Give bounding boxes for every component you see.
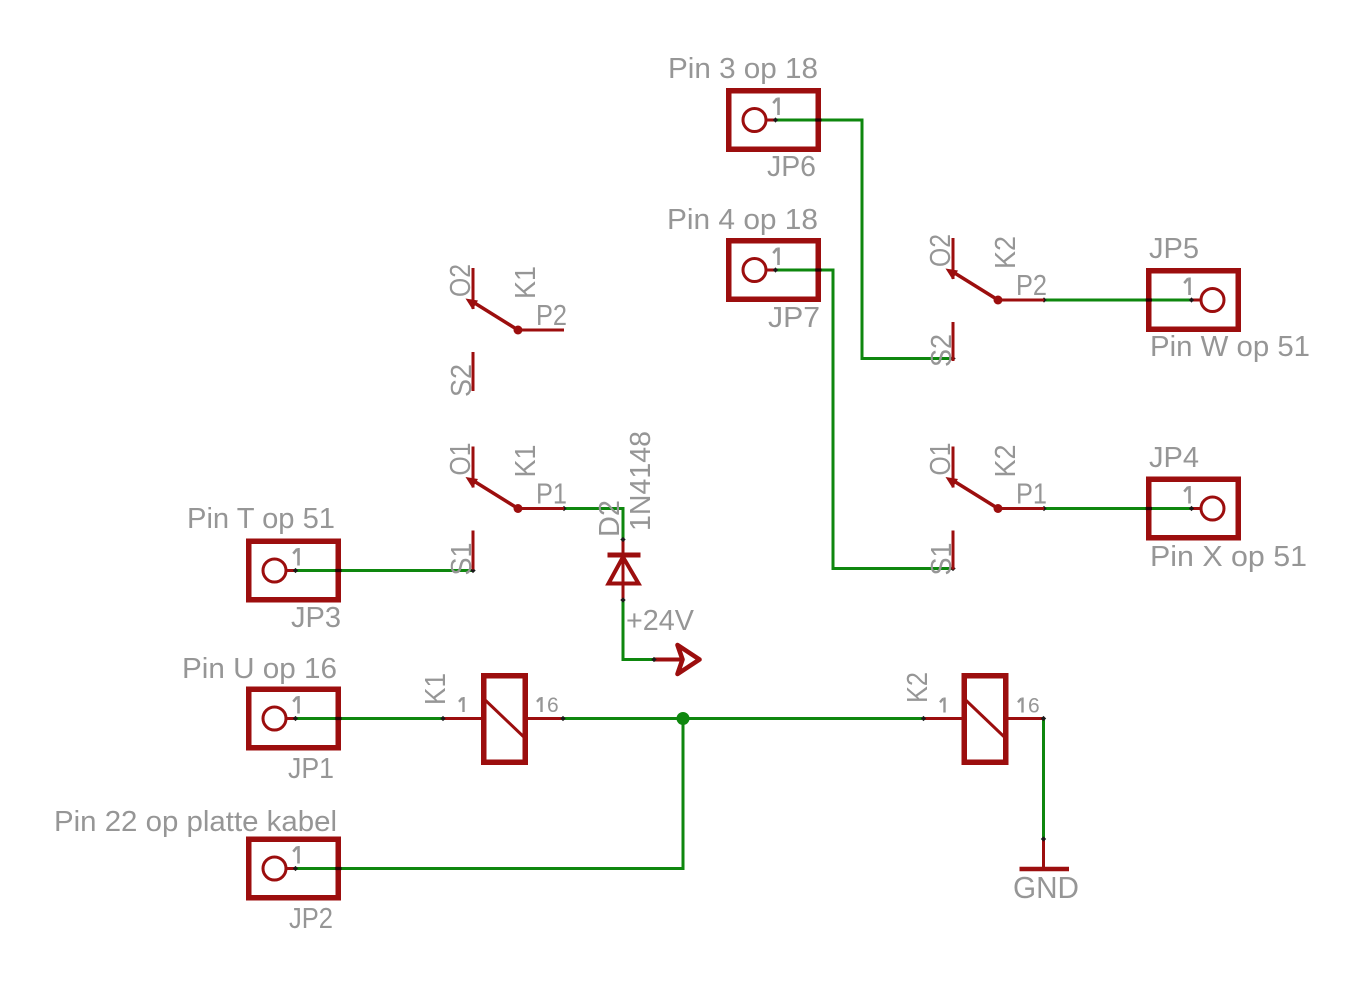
svg-text:JP6: JP6: [767, 151, 816, 183]
svg-text:6: 6: [1028, 695, 1040, 718]
svg-text:O1: O1: [925, 443, 957, 476]
svg-text:S1: S1: [446, 543, 478, 576]
svg-text:Pin W op 51: Pin W op 51: [1150, 331, 1310, 363]
svg-text:JP7: JP7: [768, 302, 820, 334]
svg-text:JP5: JP5: [1149, 233, 1199, 265]
svg-text:S2: S2: [926, 334, 958, 367]
svg-text:GND: GND: [1013, 870, 1079, 905]
svg-text:JP4: JP4: [1149, 442, 1199, 474]
svg-text:+24V: +24V: [626, 605, 695, 637]
svg-text:K2: K2: [902, 672, 934, 703]
svg-text:K1: K1: [420, 673, 452, 705]
svg-text:P2: P2: [1016, 270, 1047, 302]
svg-text:O1: O1: [445, 443, 477, 476]
svg-text:P2: P2: [536, 300, 567, 332]
svg-text:JP1: JP1: [288, 753, 334, 785]
svg-text:O2: O2: [925, 234, 957, 267]
svg-text:Pin U op 16: Pin U op 16: [182, 653, 337, 685]
svg-text:K1: K1: [510, 445, 542, 478]
svg-text:Pin T op 51: Pin T op 51: [187, 503, 335, 535]
svg-text:D2: D2: [594, 500, 626, 537]
svg-text:6: 6: [547, 694, 559, 717]
svg-text:K2: K2: [990, 236, 1022, 269]
svg-text:Pin 3 op 18: Pin 3 op 18: [668, 53, 818, 85]
svg-text:S2: S2: [446, 364, 478, 397]
svg-text:O2: O2: [445, 264, 477, 297]
svg-text:JP3: JP3: [291, 602, 341, 634]
svg-text:K2: K2: [990, 445, 1022, 478]
svg-text:K1: K1: [510, 266, 542, 299]
svg-text:Pin 4 op 18: Pin 4 op 18: [667, 204, 818, 236]
svg-text:Pin X op 51: Pin X op 51: [1150, 541, 1307, 573]
svg-text:S1: S1: [926, 543, 958, 576]
svg-text:P1: P1: [1016, 479, 1047, 511]
svg-text:1N4148: 1N4148: [625, 431, 657, 531]
svg-text:JP2: JP2: [289, 903, 333, 935]
svg-text:P1: P1: [536, 479, 567, 511]
svg-text:Pin 22 op platte kabel: Pin 22 op platte kabel: [54, 806, 337, 838]
